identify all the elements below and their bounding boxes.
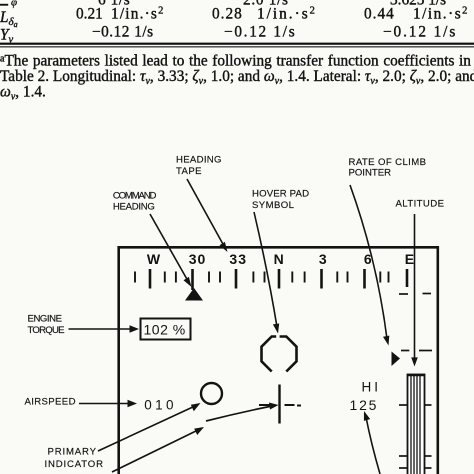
heading tape minor ticks [135, 272, 389, 283]
svg-text:125: 125 [350, 397, 379, 413]
svg-text:POINTER: POINTER [349, 168, 392, 179]
leader arrow hover pad [254, 212, 279, 334]
rate of climb pointer triangle [392, 352, 401, 367]
octagon top notch [276, 335, 279, 339]
svg-text:RATE OF CLIMB: RATE OF CLIMB [349, 157, 427, 168]
display box border [119, 247, 438, 474]
svg-text:ALTITUDE: ALTITUDE [396, 199, 445, 210]
svg-text:30: 30 [189, 251, 206, 267]
svg-text:0.28: 0.28 [212, 6, 243, 23]
svg-text:HI: HI [362, 380, 382, 395]
svg-text:TORQUE: TORQUE [28, 325, 65, 336]
aircraft cross vertical [278, 385, 280, 424]
velocity vector arrow to cross [206, 403, 279, 422]
arrow to 125 from below [364, 411, 380, 474]
altitude tape ticks [399, 405, 432, 468]
svg-text:HEADING: HEADING [113, 202, 155, 213]
hover pad octagon [262, 337, 297, 372]
svg-text:Yv: Yv [0, 26, 14, 45]
svg-text:AIRSPEED: AIRSPEED [25, 397, 76, 408]
svg-text:Table 2. Longitudinal: τv, 3.3: Table 2. Longitudinal: τv, 3.33; ζv, 1.0… [0, 68, 474, 87]
svg-text:102 %: 102 % [144, 322, 186, 338]
primary indicator arrow to circle [98, 403, 201, 451]
svg-text:SYMBOL: SYMBOL [252, 200, 295, 211]
svg-text:HEADING: HEADING [176, 155, 222, 166]
svg-text:TAPE: TAPE [176, 166, 202, 177]
small dashes below E [399, 293, 431, 296]
svg-text:33: 33 [229, 251, 246, 267]
svg-text:N: N [274, 251, 284, 267]
svg-text:φ: φ [11, 0, 17, 9]
primary indicator arrow to vector [112, 427, 204, 472]
leader arrow command heading [150, 214, 192, 287]
svg-text:INDICATOR: INDICATOR [45, 459, 104, 470]
svg-text:0.44: 0.44 [364, 6, 395, 23]
aircraft cross side dashes [259, 404, 301, 407]
arrow airspeed [79, 400, 137, 408]
engine torque readout box [141, 319, 191, 340]
heading tape letters [147, 251, 414, 267]
leader arrow rate of climb [350, 185, 389, 346]
svg-text:HOVER PAD: HOVER PAD [252, 189, 309, 200]
leader arrow altitude [411, 214, 418, 367]
leader arrow heading tape [187, 179, 228, 252]
svg-text:1/in.·s2: 1/in.·s2 [111, 6, 165, 23]
svg-text:E: E [405, 251, 414, 267]
svg-text:PRIMARY: PRIMARY [48, 447, 97, 458]
svg-text:3: 3 [319, 251, 327, 267]
altitude tape top cap [407, 374, 425, 377]
svg-text:1/in.·s2: 1/in.·s2 [257, 6, 317, 23]
rate of climb dashed reference line [401, 350, 432, 352]
table row 1 (clipped) symbol L_delta [0, 4, 8, 6]
svg-text:ENGINE: ENGINE [28, 313, 63, 324]
svg-text:010: 010 [144, 398, 177, 413]
heading tape major ticks [150, 269, 407, 290]
altitude tape stripes [411, 376, 420, 474]
svg-text:COMMAND: COMMAND [113, 191, 157, 202]
svg-text:W: W [147, 251, 161, 267]
airspeed circle symbol [201, 383, 222, 404]
arrow engine torque [69, 325, 140, 333]
command heading marker triangle [185, 288, 203, 301]
svg-text:−0.12 1/s: −0.12 1/s [383, 24, 457, 41]
svg-text:1/in.·s2: 1/in.·s2 [413, 6, 469, 23]
svg-text:ωv, 1.4.: ωv, 1.4. [0, 84, 46, 103]
svg-text:0.21: 0.21 [76, 6, 103, 23]
svg-text:−0.12 1/s: −0.12 1/s [92, 24, 154, 41]
altitude tape body [408, 375, 425, 474]
svg-text:6: 6 [364, 251, 372, 267]
table bottom double rule [0, 43, 474, 45]
svg-text:−0.12 1/s: −0.12 1/s [224, 24, 296, 41]
